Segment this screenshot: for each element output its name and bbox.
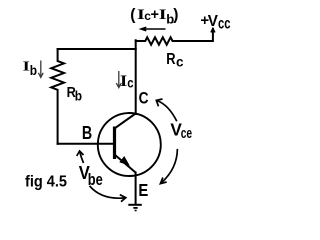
svg-text:cc: cc [218,15,231,32]
svg-text:): ) [173,6,178,23]
svg-text:+: + [151,7,159,23]
svg-text:be: be [88,171,103,189]
svg-text:E: E [138,180,148,200]
svg-text:ce: ce [181,125,192,142]
svg-text:b: b [75,88,82,104]
svg-text:B: B [82,122,92,143]
svg-text:C: C [139,89,149,108]
svg-text:c: c [127,74,133,90]
svg-text:(: ( [130,6,136,23]
svg-text:V: V [208,13,219,30]
svg-text:b: b [30,62,37,78]
svg-text:c: c [176,54,184,70]
svg-text:R: R [166,51,176,68]
svg-text:fig 4.5: fig 4.5 [25,174,67,191]
svg-text:I: I [120,73,127,90]
